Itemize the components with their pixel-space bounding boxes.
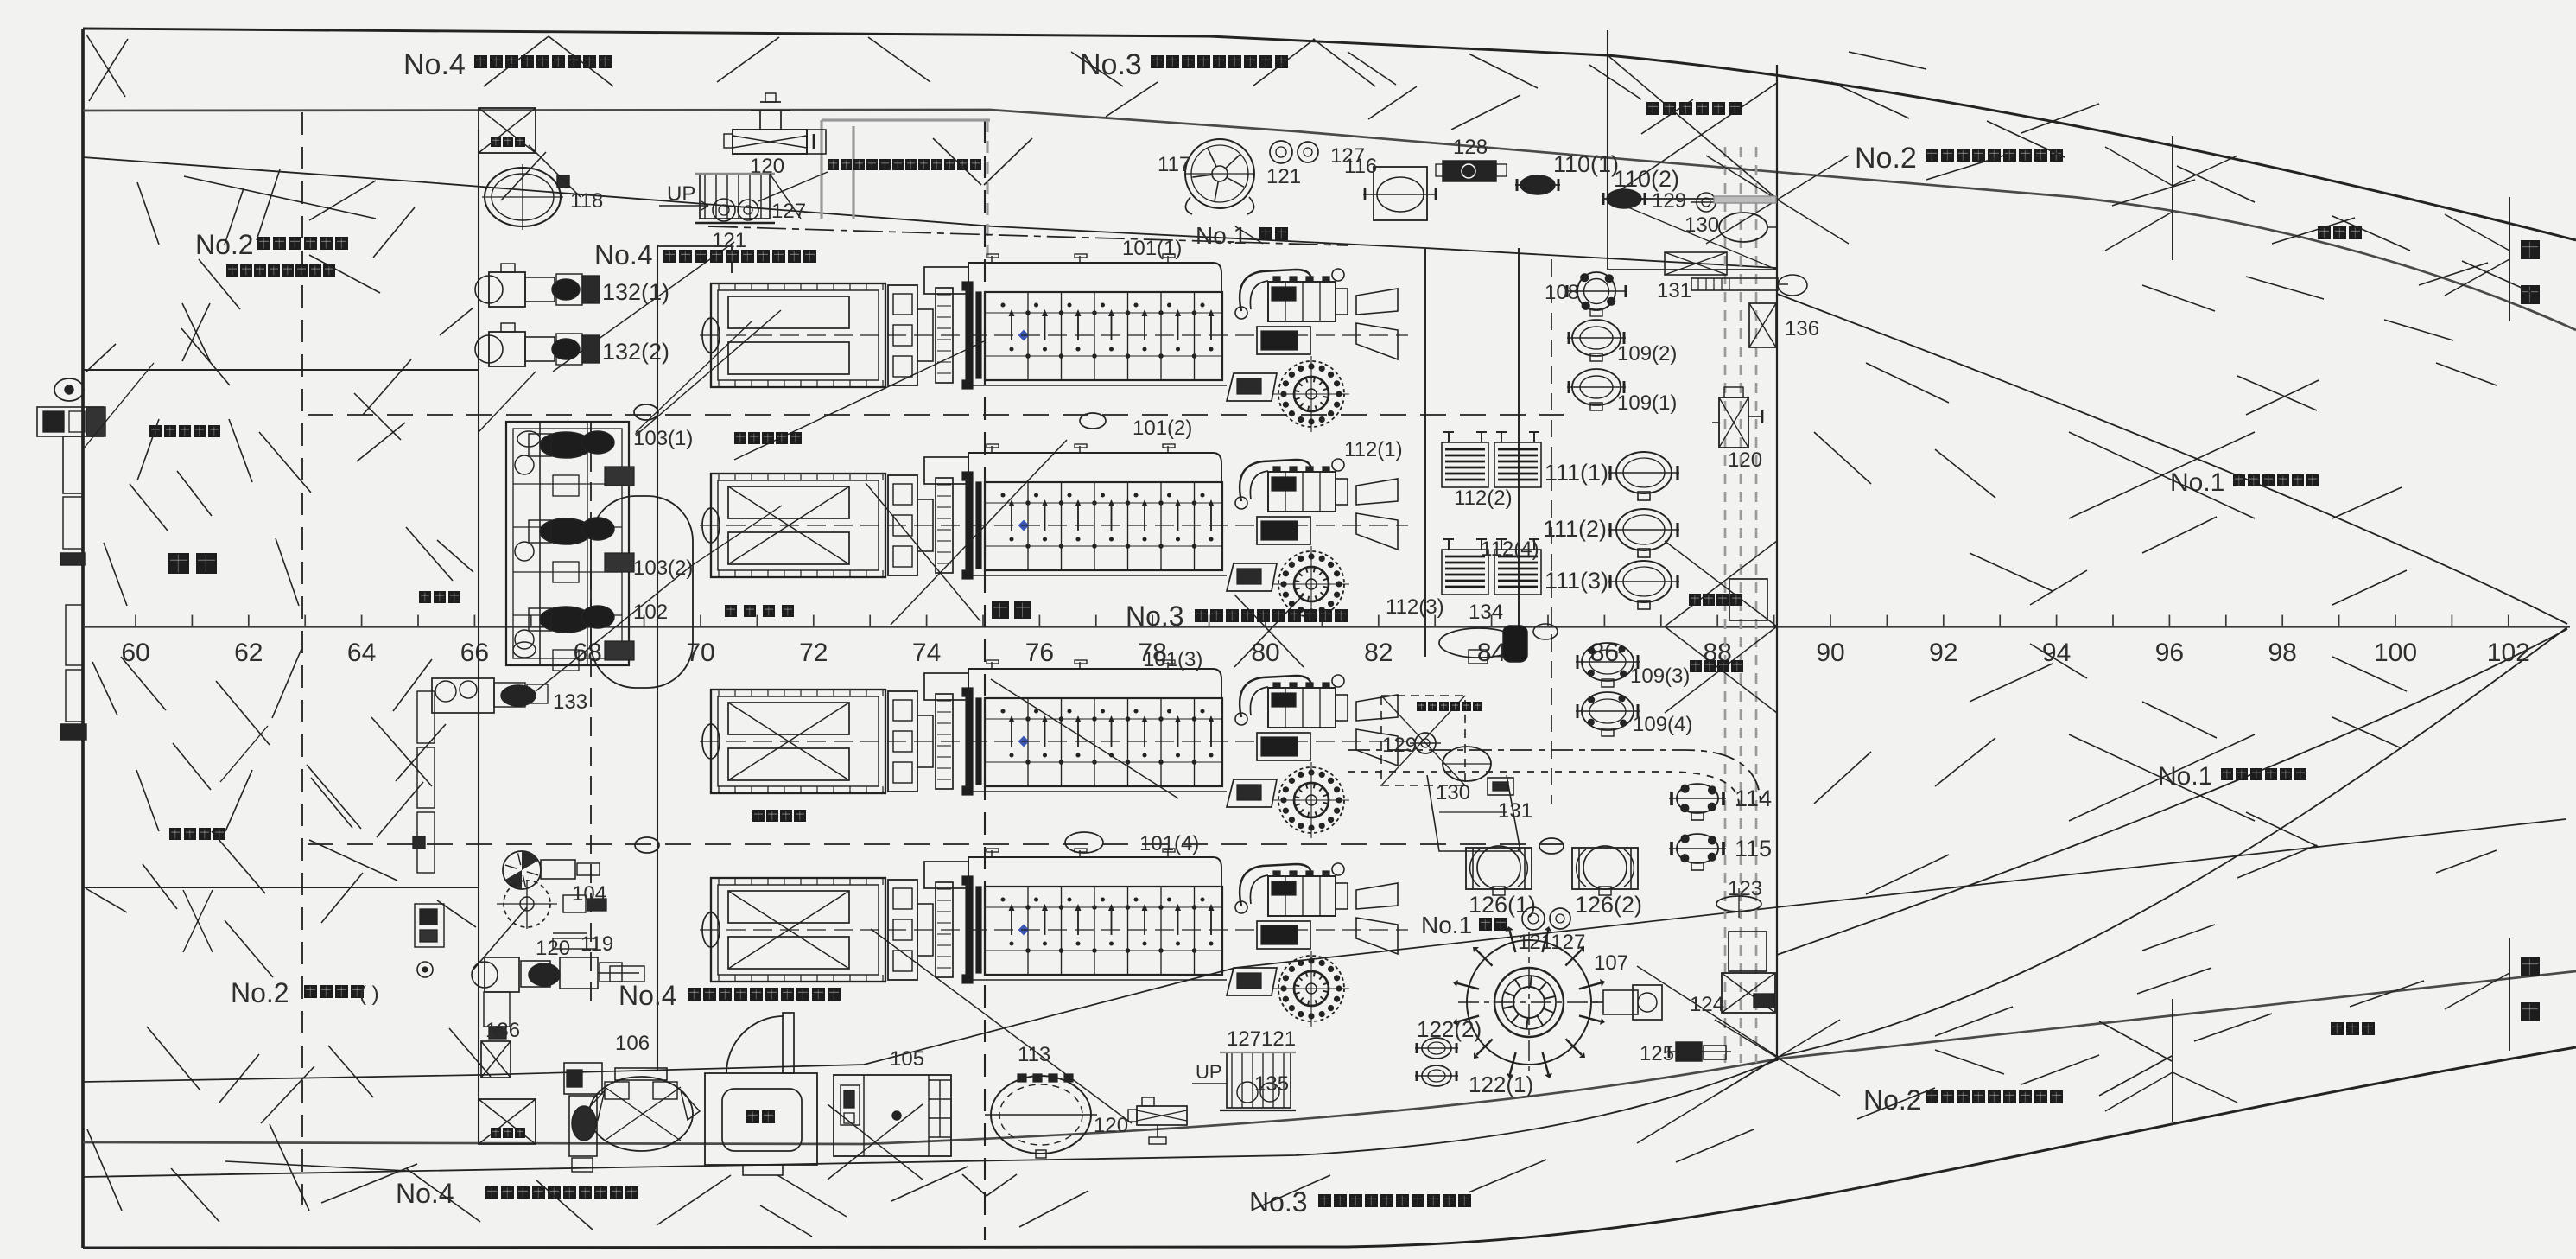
svg-text:122(2): 122(2) xyxy=(1417,1016,1482,1042)
svg-text:82: 82 xyxy=(1364,639,1393,667)
svg-text:124: 124 xyxy=(1690,993,1724,1016)
svg-text:101(4): 101(4) xyxy=(1139,832,1199,855)
svg-text:No.2: No.2 xyxy=(231,977,289,1008)
svg-text:132(2): 132(2) xyxy=(602,339,669,365)
svg-text:111(2): 111(2) xyxy=(1543,516,1607,542)
svg-text:113: 113 xyxy=(1018,1043,1050,1066)
svg-text:102: 102 xyxy=(633,601,668,624)
svg-text:64: 64 xyxy=(347,639,376,667)
svg-text:127121: 127121 xyxy=(1227,1027,1296,1051)
svg-text:No.4: No.4 xyxy=(403,48,466,81)
svg-text:130: 130 xyxy=(1685,213,1719,237)
svg-text:103(1): 103(1) xyxy=(633,427,693,450)
svg-text:62: 62 xyxy=(234,639,263,667)
svg-text:No.3: No.3 xyxy=(1249,1186,1308,1218)
svg-text:110(2): 110(2) xyxy=(1614,166,1679,192)
svg-text:112(4): 112(4) xyxy=(1481,537,1539,561)
svg-text:134: 134 xyxy=(1469,601,1503,624)
svg-text:70: 70 xyxy=(686,639,714,667)
svg-text:110(1): 110(1) xyxy=(1553,151,1619,177)
svg-text:126(2): 126(2) xyxy=(1575,892,1642,918)
svg-text:112(1): 112(1) xyxy=(1344,438,1403,461)
svg-text:123: 123 xyxy=(1728,877,1762,900)
svg-text:129: 129 xyxy=(1382,734,1417,757)
svg-text:84: 84 xyxy=(1477,639,1506,667)
svg-text:98: 98 xyxy=(2268,639,2297,667)
svg-text:117: 117 xyxy=(1158,153,1190,176)
svg-text:133: 133 xyxy=(553,690,587,714)
svg-text:121: 121 xyxy=(712,229,746,252)
svg-text:121: 121 xyxy=(1266,165,1301,188)
svg-text:112(2): 112(2) xyxy=(1454,486,1513,510)
svg-text:106: 106 xyxy=(615,1032,650,1055)
svg-text:136: 136 xyxy=(1785,317,1819,340)
svg-text:76: 76 xyxy=(1025,639,1054,667)
svg-text:109(1): 109(1) xyxy=(1617,391,1677,415)
svg-text:120: 120 xyxy=(1094,1114,1128,1137)
svg-text:120: 120 xyxy=(536,937,570,960)
svg-text:132(1): 132(1) xyxy=(602,279,669,305)
svg-text:129: 129 xyxy=(1652,189,1686,213)
svg-text:101(2): 101(2) xyxy=(1133,416,1192,440)
svg-text:UP: UP xyxy=(1196,1061,1222,1083)
svg-text:115: 115 xyxy=(1735,836,1772,862)
svg-text:130: 130 xyxy=(1436,781,1470,804)
svg-text:No.2: No.2 xyxy=(195,229,254,260)
svg-text:90: 90 xyxy=(1816,639,1844,667)
svg-text:122(1): 122(1) xyxy=(1469,1071,1533,1097)
svg-text:No.4: No.4 xyxy=(619,980,677,1011)
svg-text:No.3: No.3 xyxy=(1126,601,1184,632)
svg-text:136: 136 xyxy=(485,1019,520,1042)
svg-text:74: 74 xyxy=(912,639,941,667)
svg-text:101(3): 101(3) xyxy=(1143,648,1202,671)
svg-text:128: 128 xyxy=(1453,136,1488,159)
svg-text:105: 105 xyxy=(890,1047,924,1071)
svg-text:72: 72 xyxy=(799,639,828,667)
svg-text:135: 135 xyxy=(1254,1072,1289,1096)
svg-text:66: 66 xyxy=(460,639,489,667)
svg-text:120: 120 xyxy=(1728,448,1762,472)
svg-text:109(3): 109(3) xyxy=(1630,664,1690,688)
svg-text:No.1: No.1 xyxy=(1421,912,1472,938)
svg-text:111(1): 111(1) xyxy=(1545,460,1608,486)
svg-text:127: 127 xyxy=(771,200,806,223)
svg-text:119: 119 xyxy=(581,932,613,956)
svg-text:121127: 121127 xyxy=(1518,931,1585,954)
svg-text:100: 100 xyxy=(2374,639,2417,667)
svg-text:No.1: No.1 xyxy=(1196,222,1247,249)
svg-text:No.4: No.4 xyxy=(594,239,653,270)
svg-text:107: 107 xyxy=(1594,951,1628,975)
svg-text:109(4): 109(4) xyxy=(1633,713,1692,736)
svg-text:96: 96 xyxy=(2155,639,2184,667)
svg-text:No.2: No.2 xyxy=(1855,142,1917,175)
svg-text:No.3: No.3 xyxy=(1080,48,1142,81)
svg-text:101(1): 101(1) xyxy=(1122,237,1182,260)
svg-text:103(2): 103(2) xyxy=(633,556,693,580)
svg-text:109(2): 109(2) xyxy=(1617,342,1677,366)
svg-text:114: 114 xyxy=(1735,785,1772,811)
svg-text:92: 92 xyxy=(1929,639,1957,667)
svg-text:116: 116 xyxy=(1344,155,1377,178)
svg-text:108: 108 xyxy=(1545,281,1579,304)
svg-text:94: 94 xyxy=(2042,639,2071,667)
svg-text:112(3): 112(3) xyxy=(1386,595,1444,619)
svg-text:125: 125 xyxy=(1640,1042,1674,1065)
svg-text:UP: UP xyxy=(667,182,695,206)
svg-text:No.2: No.2 xyxy=(1863,1084,1922,1116)
svg-text:126(1): 126(1) xyxy=(1469,892,1536,918)
svg-text:102: 102 xyxy=(2487,639,2530,667)
svg-text:111(3): 111(3) xyxy=(1545,568,1608,594)
svg-text:( ): ( ) xyxy=(359,982,379,1006)
svg-text:80: 80 xyxy=(1251,639,1279,667)
svg-text:118: 118 xyxy=(570,189,603,213)
svg-text:104: 104 xyxy=(572,882,606,906)
svg-text:131: 131 xyxy=(1657,279,1691,302)
